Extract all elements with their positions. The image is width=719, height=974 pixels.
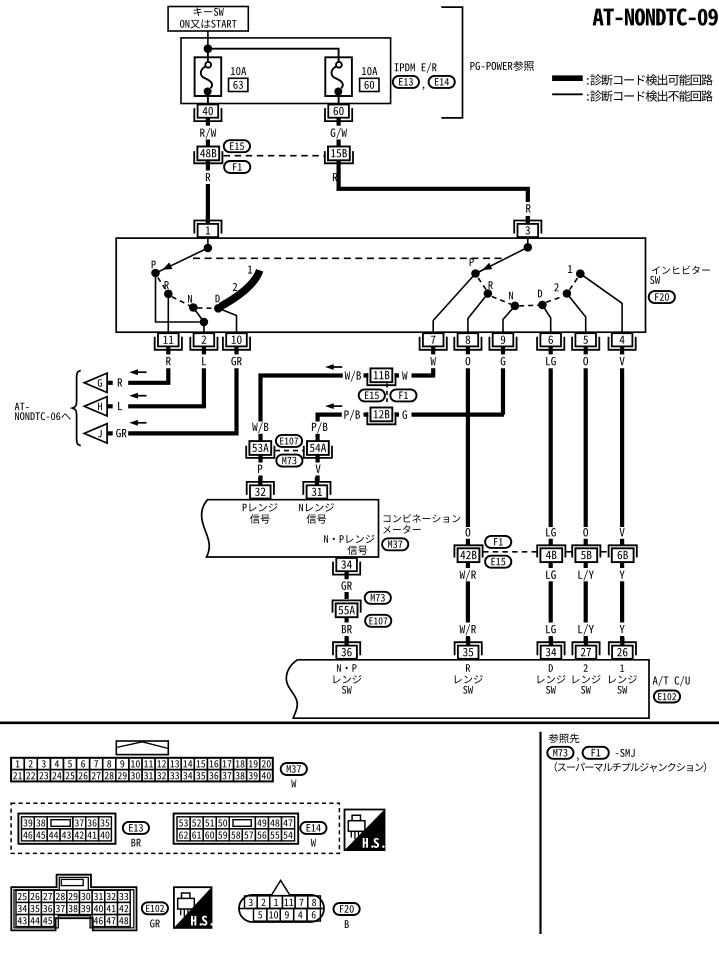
dashed contact path left N-D [198, 307, 215, 309]
label E13 color BR [131, 839, 140, 847]
wire N right to pin 9 [503, 306, 515, 333]
wire junction to fuse 63 [207, 49, 209, 62]
harness view logo H.S. 2 [174, 887, 213, 928]
label F20 color B [345, 920, 349, 928]
label W/R above pin 35 [460, 624, 476, 635]
connector 5B [572, 545, 600, 562]
wire L pin2 to connector H [128, 368, 204, 406]
arrow L direction [129, 393, 146, 399]
label P [258, 465, 262, 473]
pin 32 [247, 477, 274, 498]
wire lever arm left with arrowhead [158, 248, 208, 272]
label LG above pin 34 [546, 625, 556, 634]
connector face E14 [174, 814, 299, 844]
label N・P レンジ SW [333, 664, 361, 693]
label V under 54A [316, 465, 321, 473]
connector face E13 [18, 814, 115, 844]
node switch right common [524, 243, 533, 252]
wire W pin7 down [431, 368, 435, 375]
connector F1 oval [224, 161, 250, 173]
connector F20 oval bottom [334, 903, 360, 915]
dashed link 4B-5B [566, 551, 572, 553]
wire junction to fuse 60 [208, 49, 339, 62]
label L/Y above pin 27 [578, 624, 593, 635]
label GR under pin 34 [341, 581, 351, 590]
wire LG into pin 34 [549, 636, 553, 642]
arrow R direction [129, 369, 146, 375]
node 2 right [554, 283, 571, 297]
wire G/W pin60 to 15B [337, 140, 341, 147]
pin 3 [514, 216, 541, 237]
label Y above pin 26 [620, 625, 625, 633]
label W at 11B [402, 371, 407, 379]
wire W/B into 53A [258, 434, 262, 441]
node N left [188, 295, 198, 312]
connector F1 oval at 42B [485, 536, 511, 548]
label wire color G pin 9 [501, 357, 506, 366]
wire 2 right to pin 5 [567, 294, 586, 334]
bracket PG-POWER reference [441, 7, 534, 118]
wire P/B to 54A [318, 415, 342, 422]
node fuse feed junction [204, 44, 213, 53]
connector E15 oval at 42B [485, 556, 511, 568]
wire LG pin down to 4B [549, 368, 553, 527]
node P right [470, 258, 480, 278]
label wire color V pin 4 [620, 357, 625, 365]
dashed link 5B-6B [601, 551, 607, 553]
label R left [206, 173, 210, 181]
label R above pin 3 [526, 204, 530, 212]
connector 55A [333, 600, 361, 617]
connector 54A [304, 441, 332, 458]
wire pin 3 to switch common [527, 238, 529, 247]
wire P/B 12B left [364, 413, 369, 417]
pin 1 [194, 216, 221, 237]
inhibitor switch box U-F20 [116, 238, 645, 332]
wire O pin down to 5B [584, 368, 588, 527]
wire V pin down to 6B [620, 368, 624, 527]
connector 42B [454, 545, 482, 562]
wire lever arm right with arrowhead [478, 247, 528, 272]
pin 31 [303, 477, 330, 498]
label wire color O pin 8 [466, 357, 471, 366]
label D レンジ SW [538, 664, 566, 693]
dashed contact path right D-2 [546, 296, 563, 302]
connector E13 oval [123, 822, 149, 834]
connector M37 oval bottom [281, 763, 307, 775]
node D right [538, 290, 547, 310]
label wire color GR pin 10 [231, 357, 241, 366]
dashed SMJ link 48B-15B [224, 155, 325, 157]
node N right [509, 292, 519, 310]
label Y below 6B [620, 571, 625, 579]
pin 4 inhibitor [609, 333, 636, 354]
pin 8 inhibitor [454, 333, 481, 354]
label R レンジ SW [455, 664, 483, 693]
fuse 10A 60 [325, 57, 379, 104]
wire R/W pin40 to 48B [206, 140, 210, 147]
wire O into 42B [466, 539, 470, 546]
wire LG down to pin 34 [549, 581, 553, 622]
wire 1 right to pin 4 [580, 274, 622, 333]
legend thin line non-diagnosable circuit [552, 90, 713, 101]
connector M73 oval at 53A [276, 455, 302, 467]
wire W/R into pin 35 [466, 636, 470, 642]
wire O pin down to 42B [466, 368, 470, 527]
terminal triangle G [84, 373, 113, 392]
node P left [151, 261, 160, 278]
SMJ dashed box [11, 803, 339, 853]
wire R 48B to pin 1 [206, 160, 210, 223]
label L/Y below 5B [578, 570, 593, 581]
wire Y below 6B [620, 562, 624, 568]
label W/B above 53A [252, 422, 268, 433]
label V above 6B [620, 528, 625, 536]
wire G pin9 down [501, 368, 505, 414]
wire N left to junction [193, 308, 204, 323]
label R right upper [333, 173, 337, 181]
label wire color L pin 2 [202, 357, 206, 365]
label 2 レンジ SW [573, 664, 601, 693]
wire LG into 4B [549, 539, 553, 546]
dashed lever common rail [193, 257, 505, 259]
label L at triangle [118, 402, 122, 410]
label GR at triangle [116, 429, 126, 438]
IPDM E/R box [181, 38, 391, 104]
wire P/B into 54A [316, 434, 320, 441]
label 1 left [248, 266, 252, 274]
connector E15 oval [224, 140, 250, 152]
dashed link 42B-4B [483, 551, 537, 553]
node junction left pin2 [200, 318, 209, 327]
arrow GR direction [129, 420, 146, 426]
node R left [164, 281, 173, 298]
wire G to 12B [395, 413, 505, 417]
connector F1 oval at 11B [390, 389, 416, 401]
dashed link 11B to E15/F1 [386, 384, 388, 403]
pin 2 inhibitor [190, 333, 217, 354]
pin 35 atcu [455, 638, 482, 659]
connector E102 oval [654, 691, 680, 703]
wire P 53A to pin 32 [258, 455, 262, 481]
dashed link 53A-54A [275, 450, 303, 452]
wire D left to pin 10 [218, 308, 236, 333]
wire O into 5B [584, 539, 588, 546]
wire key-SW to IPDM [207, 31, 209, 46]
wire W/B to 53A [261, 376, 343, 422]
connector 11B [367, 368, 395, 385]
connector E15 oval at 11B [359, 389, 385, 401]
label E14 color W [311, 839, 316, 847]
label IPDM E/R with connectors E13 E14 [393, 63, 455, 90]
connector face F20 [239, 880, 324, 922]
dashed contact path right N-D [519, 304, 538, 307]
pin 27 atcu [572, 638, 599, 659]
pin 6 inhibitor [537, 333, 564, 354]
node switch left common [204, 244, 213, 253]
label wire color R pin 11 [166, 357, 170, 365]
label W/B inline [345, 371, 361, 382]
title AT-NONDTC-09 [593, 8, 718, 25]
connector F20 oval [649, 291, 675, 303]
label G at 12B [402, 410, 407, 419]
legend thick line diagnosable circuit [552, 74, 713, 85]
dashed contact path left P-R [158, 278, 166, 291]
wire R right to pin 8 [468, 294, 488, 334]
wire GR pin34 to 55A [345, 592, 349, 599]
wire GR pin10 to connector J [128, 368, 236, 433]
label inhibitor SW [650, 266, 710, 284]
connector face M37 tab [116, 741, 168, 755]
connector E107 oval at 53A [276, 435, 302, 447]
connector 4B [537, 545, 565, 562]
wire P right to pin 7 [433, 274, 475, 334]
label R at triangle [118, 378, 122, 386]
pin 60 [325, 105, 352, 126]
wire L/Y down to pin 27 [584, 581, 588, 622]
label A/T C/U [653, 676, 690, 687]
terminal triangle J [84, 424, 113, 443]
connector 53A [246, 441, 274, 458]
harness view logo H.S. 1 [345, 810, 385, 851]
AT control unit box E102 [286, 660, 649, 718]
connector 15B [325, 147, 353, 164]
pin 9 inhibitor [489, 333, 516, 354]
wire P left to pin2 rail [156, 273, 200, 322]
label W/R below 42B [460, 570, 476, 581]
pin 34 atcu [537, 638, 564, 659]
wire V into 6B [620, 539, 624, 546]
label LG above 4B [546, 528, 556, 537]
connector M37 oval [382, 538, 408, 550]
connector E102 oval bottom [142, 902, 168, 914]
label R/W [200, 128, 216, 139]
wire pin 1 to switch common [207, 238, 209, 248]
wire V 54A to pin 31 [316, 455, 320, 481]
connector E14 oval [300, 822, 326, 834]
connector 48B [194, 147, 222, 164]
wire L/Y below 5B [584, 562, 588, 568]
arrow P/B direction [325, 403, 342, 409]
label wire color W pin 7 [430, 357, 435, 365]
wire LG below 4B [549, 562, 553, 568]
label LG below 4B [546, 570, 556, 579]
wire L/Y into pin 27 [584, 636, 588, 642]
node 1 right [568, 265, 585, 278]
label wire color LG pin 6 [546, 357, 556, 366]
label O above 5B [583, 528, 588, 537]
wire R pin11 to connector G [128, 368, 168, 383]
connector face M37 [11, 758, 273, 782]
label BR [342, 625, 352, 633]
node D left [214, 295, 223, 313]
dashed contact path right R-N [492, 297, 511, 305]
label E102 color GR [150, 919, 160, 927]
pin 5 inhibitor [572, 333, 599, 354]
label P/B inline [344, 410, 360, 421]
pin 36 [333, 638, 360, 659]
dashed contact path right 2-1 [570, 278, 578, 290]
reference section 参照先 [541, 732, 707, 934]
connector E107 oval at 55A [365, 615, 391, 627]
lever position arc left [221, 270, 260, 306]
pin 34 meter [333, 558, 360, 579]
wire Y down to pin 26 [620, 581, 624, 622]
pin 11 inhibitor [155, 333, 182, 354]
label M37 color W [291, 780, 296, 788]
wire Y into pin 26 [620, 636, 624, 642]
connector 12B [367, 408, 395, 425]
label 2 left [233, 283, 238, 291]
wire R left to pin 11 [167, 294, 169, 333]
label G/W [331, 128, 347, 139]
key switch box キーSW ON又はSTART [168, 7, 248, 32]
dashed contact path left R-N [172, 297, 190, 306]
label 1 レンジ SW [609, 664, 637, 693]
label O above 42B [466, 528, 471, 537]
pin 7 inhibitor [420, 333, 447, 354]
pin 10 inhibitor [223, 333, 250, 354]
wire W/R below 42B [466, 562, 470, 568]
connector 6B [609, 545, 637, 562]
wire D right to pin 6 [542, 305, 550, 333]
label wire color O pin 5 [583, 357, 588, 366]
wire W/R down to pin 35 [466, 581, 470, 622]
arrow W/B direction [325, 364, 342, 370]
wire junction to pin 2 [203, 322, 205, 333]
connector face E102 [11, 875, 136, 931]
label P/B above 54A [312, 422, 328, 433]
wire BR 55A to pin 36 [345, 617, 349, 641]
separator line [0, 721, 719, 724]
dashed contact path right P-R [478, 278, 486, 290]
wire W to 11B [395, 373, 436, 377]
node R right [484, 281, 493, 298]
brace to AT-NONDTC-06 [15, 371, 81, 446]
terminal triangle H [84, 397, 113, 416]
wire W/B 11B left [364, 373, 369, 377]
label combination meter [383, 514, 460, 534]
connector M73 oval at 55A [365, 592, 391, 604]
wire R 15B to pin 3 [339, 160, 528, 223]
pin 40 [194, 105, 221, 126]
combination meter box M37 [202, 500, 379, 557]
pin 26 atcu [609, 638, 636, 659]
fuse 10A 63 [195, 57, 248, 104]
